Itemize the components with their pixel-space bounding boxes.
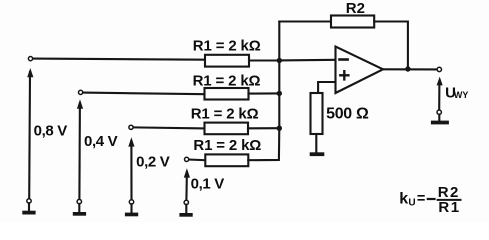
wire input node 3 to R1c <box>133 126 204 129</box>
svg-text:R1: R1 <box>438 199 460 216</box>
node input 1 <box>28 57 32 61</box>
resistor R2 <box>331 16 374 28</box>
svg-text:R2: R2 <box>346 0 365 17</box>
svg-text:0,2 V: 0,2 V <box>136 153 170 170</box>
wire input node 4 to R1d <box>189 158 206 161</box>
formula fraction bar <box>438 199 461 201</box>
svg-text:R1 = 2 kΩ: R1 = 2 kΩ <box>191 106 259 123</box>
resistor R1 (row 3) <box>205 123 249 135</box>
wire R1b to inverting bus <box>249 92 280 94</box>
node ground terminal 1 <box>27 199 31 203</box>
node ground terminal output <box>437 110 441 114</box>
svg-text:0,4 V: 0,4 V <box>84 133 118 150</box>
label 0,8 V <box>34 122 68 139</box>
ground (output) <box>431 115 449 125</box>
svg-text:=: = <box>417 191 425 207</box>
wire input node 1 to R1a <box>33 59 205 60</box>
wire R2 to output node <box>374 22 408 70</box>
wire inverting bus vertical <box>278 22 280 129</box>
ground 2 <box>73 204 86 216</box>
label R1 = 2 kΩ (row 2) <box>193 72 261 89</box>
node ground terminal 3 <box>129 200 133 204</box>
wire op-amp output <box>383 68 437 70</box>
voltage source arrow 0,4 V <box>77 99 83 199</box>
label 0,1 V <box>191 175 225 192</box>
node output terminal <box>437 67 441 71</box>
ground 4 <box>179 205 192 217</box>
ground (500Ω) <box>310 152 325 156</box>
wire bus to R2 <box>279 20 331 22</box>
svg-text:k: k <box>399 191 408 208</box>
junction bus row 3 <box>277 126 282 131</box>
formula k_U = -R2/R1 <box>399 184 460 216</box>
node ground terminal 4 <box>184 200 188 204</box>
junction bus row 1 <box>277 58 282 63</box>
ground 1 <box>22 203 35 214</box>
node ground terminal 2 <box>77 199 81 203</box>
wire bus to op-amp inverting input <box>279 59 335 62</box>
label 0,4 V <box>84 133 118 150</box>
wire 500Ω to op-amp non-inverting input <box>318 82 335 93</box>
label R1 = 2 kΩ (row 1) <box>193 37 261 54</box>
ground 3 <box>125 204 138 216</box>
junction bus row 2 <box>277 91 282 96</box>
wire 500Ω to ground <box>315 134 317 152</box>
svg-text:0,1 V: 0,1 V <box>191 175 225 192</box>
voltage source arrow 0,8 V <box>27 68 33 199</box>
wire input node 2 to R1b <box>83 93 205 95</box>
resistor R1 (top, row 1) <box>205 55 249 67</box>
svg-text:500 Ω: 500 Ω <box>326 106 369 123</box>
voltage source arrow 0,1 V <box>184 168 190 200</box>
voltage source arrow 0,2 V <box>128 137 134 199</box>
svg-text:WY: WY <box>454 90 469 100</box>
label 0,2 V <box>136 153 170 170</box>
label 500 Ω <box>326 106 369 123</box>
label R1 = 2 kΩ (row 3) <box>191 106 259 123</box>
wire R1d up to inverting bus <box>248 128 279 160</box>
voltage arrow U_WY <box>437 77 443 110</box>
svg-text:R1 = 2 kΩ: R1 = 2 kΩ <box>193 72 261 89</box>
label U_WY <box>445 84 468 101</box>
node input 3 <box>129 125 133 129</box>
resistor R1 (row 4) <box>205 154 248 166</box>
svg-text:R1 = 2 kΩ: R1 = 2 kΩ <box>193 37 261 54</box>
label R2 <box>346 0 365 17</box>
formula minus sign <box>428 198 435 200</box>
junction output node <box>405 66 410 71</box>
wire R1a to inverting bus <box>249 59 279 61</box>
label R1 = 2 kΩ (row 4) <box>193 137 261 154</box>
node input 4 <box>185 157 189 161</box>
resistor 500 Ω <box>311 93 323 134</box>
svg-text:0,8 V: 0,8 V <box>34 122 68 139</box>
wire R1c to inverting bus <box>248 127 279 129</box>
resistor R1 (row 2) <box>205 88 249 100</box>
op-amp U1 <box>336 47 384 93</box>
svg-text:R1 = 2 kΩ: R1 = 2 kΩ <box>193 137 261 154</box>
svg-text:U: U <box>408 198 415 209</box>
node input 2 <box>79 90 83 94</box>
